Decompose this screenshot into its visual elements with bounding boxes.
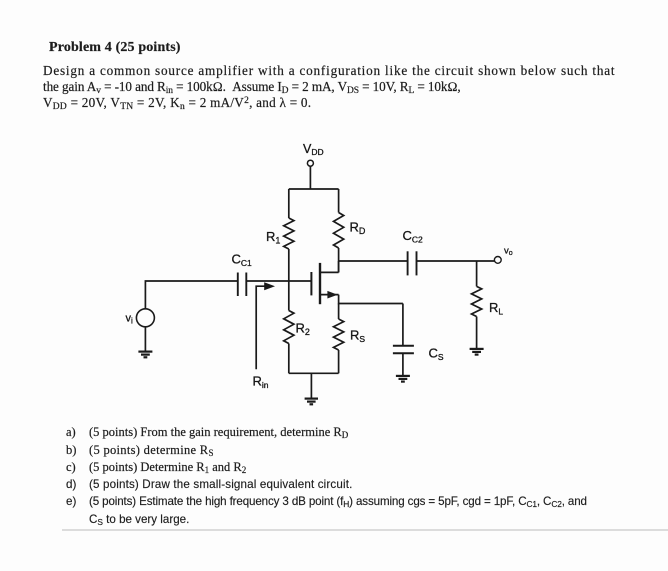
- wire CS to ground: [402, 353, 404, 375]
- svg-text:vo: vo: [504, 246, 513, 258]
- ground (vi): [138, 352, 152, 358]
- wire output rail to CC2: [339, 260, 408, 262]
- wire bottom rail: [289, 372, 339, 374]
- svg-text:CC1: CC1: [232, 252, 253, 269]
- resistor R2: [284, 311, 310, 344]
- wire left leg to R1: [288, 189, 290, 218]
- svg-text:RD: RD: [350, 220, 366, 237]
- svg-text:R1: R1: [266, 229, 280, 246]
- resistor RS: [334, 319, 366, 350]
- wire source to RS: [338, 304, 340, 320]
- svg-text:vi: vi: [126, 313, 134, 326]
- wire RD bottom to drain node: [338, 248, 340, 272]
- wire right leg to RD: [338, 189, 340, 213]
- wire RL to ground: [476, 317, 478, 349]
- wire source node: [339, 295, 403, 304]
- wire CC2 to output terminal: [417, 260, 495, 262]
- paragraph: [43, 63, 615, 110]
- svg-text:Rin: Rin: [253, 374, 269, 391]
- wire top rail: [289, 188, 339, 190]
- wire drain to output rail: [338, 261, 340, 272]
- wire RS bottom to bottom rail: [338, 350, 340, 373]
- svg-text:RL: RL: [489, 300, 503, 317]
- svg-text:RS: RS: [350, 328, 365, 345]
- capacitor CS: [393, 304, 444, 363]
- capacitor CC1: [232, 252, 253, 297]
- wire R2 top from gate node: [288, 281, 290, 311]
- wire VDD stem: [309, 167, 311, 189]
- wire bottom rail to ground: [310, 373, 312, 398]
- wire R1 bottom to gate node: [288, 249, 290, 281]
- svg-text:CC2: CC2: [403, 228, 424, 245]
- svg-text:CS: CS: [429, 346, 444, 363]
- wire CC1 to gate: [246, 280, 311, 282]
- wire R2 bottom to bottom rail: [288, 344, 290, 374]
- svg-text:R2: R2: [296, 321, 310, 338]
- svg-text:VDD: VDD: [303, 142, 324, 157]
- node Rin input-resistance arrow: [253, 282, 276, 390]
- faint scan artifact line: [62, 529, 668, 531]
- resistor RL: [472, 286, 504, 316]
- node VDD terminal: [303, 142, 324, 166]
- source vi: [126, 309, 155, 327]
- wire vi to ground: [144, 327, 146, 351]
- capacitor CC2: [403, 228, 424, 275]
- resistor R1: [266, 218, 294, 249]
- transistor M1 (NMOS): [311, 263, 338, 304]
- ground (CS): [396, 376, 410, 382]
- ground (RL): [470, 349, 484, 355]
- wire down to RL: [476, 261, 478, 286]
- wire vi to CC1: [145, 281, 237, 309]
- node vo terminal: [494, 246, 512, 264]
- resistor RD: [334, 213, 366, 249]
- ground (main): [305, 399, 318, 405]
- question list: [66, 425, 587, 530]
- title: [49, 40, 181, 56]
